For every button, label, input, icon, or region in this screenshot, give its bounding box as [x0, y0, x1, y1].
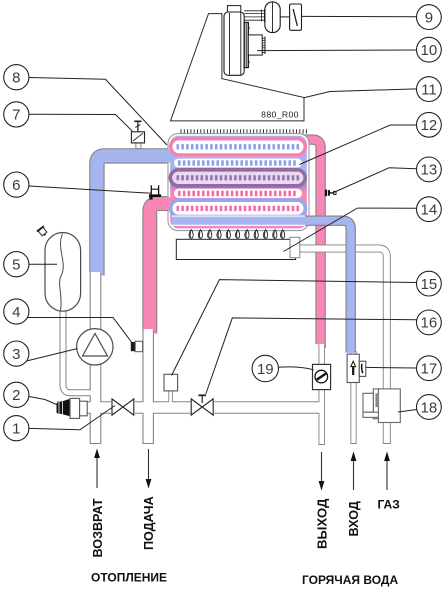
flow arrow supply (down) [148, 449, 150, 480]
svg-text:ВОЗВРАТ: ВОЗВРАТ [91, 498, 105, 557]
coil row 2 (blue fins strip) [174, 159, 302, 168]
dhw outlet lower run [319, 345, 325, 445]
fan top cap [227, 6, 240, 13]
svg-text:15: 15 [421, 276, 438, 293]
leader line 12 [300, 125, 417, 165]
callout circle 17 [417, 356, 442, 381]
svg-text:13: 13 [421, 162, 438, 179]
flue hood [171, 14, 305, 121]
white pipework: bores [58, 249, 387, 445]
svg-text:2: 2 [12, 387, 20, 404]
burner flames [189, 230, 285, 239]
drain fitting (item 2) [57, 398, 88, 418]
pressure relief valve (item 4) [131, 341, 143, 351]
svg-text:17: 17 [421, 361, 438, 378]
dhw flow switch (item 17) [347, 354, 366, 382]
gas pipe fitting at burner [290, 237, 300, 257]
arrowhead dhw outlet [319, 481, 325, 491]
heating return pipe (blue) [97, 156, 171, 276]
flow arrow gas (up) [386, 460, 388, 490]
leader line 14 [284, 208, 417, 251]
dhw inlet lower run [350, 351, 356, 444]
burner (item 14) [176, 239, 295, 259]
gas pipe [296, 249, 387, 445]
svg-text:10: 10 [421, 42, 438, 59]
callout circle 8 [4, 65, 29, 90]
leader line 9 [302, 15, 417, 17]
leader line 13 [333, 168, 417, 193]
svg-text:9: 9 [425, 9, 433, 26]
leader line 7 [29, 114, 133, 131]
svg-text:880_R00: 880_R00 [261, 110, 299, 120]
svg-text:19: 19 [257, 361, 274, 378]
callout circle 9 [417, 5, 442, 30]
svg-text:12: 12 [421, 117, 438, 134]
filling valve (item 16) [191, 394, 215, 415]
heating supply pipe (pink) [150, 204, 171, 334]
leader line 1 [29, 406, 115, 430]
coil row 3 (purple ring, purple fins) [169, 168, 307, 187]
callout circle 19 [252, 355, 278, 381]
svg-text:ПОДАЧА: ПОДАЧА [142, 496, 156, 550]
pressure plate (item 9) [290, 4, 302, 30]
arrowhead dhw inlet [351, 452, 357, 462]
fan motor U10 [248, 35, 262, 55]
pump (item 3) [77, 329, 113, 365]
leader line 10 [257, 49, 416, 52]
arrowhead return [94, 449, 100, 459]
leader line 11 [304, 89, 416, 98]
vessel charge valve [37, 226, 49, 238]
leader line 18 [398, 410, 417, 413]
leader line 3 [27, 349, 78, 362]
svg-text:ГОРЯЧАЯ ВОДА: ГОРЯЧАЯ ВОДА [302, 573, 398, 587]
supply pipe lower run [142, 330, 154, 444]
leader line 8 [29, 78, 167, 146]
svg-text:14: 14 [421, 202, 438, 219]
fan housing [224, 12, 244, 75]
coil row 4 (pink fins strip) [174, 189, 302, 198]
callout circle 12 [417, 112, 442, 137]
svg-text:8: 8 [12, 70, 20, 87]
fan assembly [224, 2, 302, 75]
leader line 2 [29, 397, 57, 405]
expansion vessel (item 5) [37, 226, 81, 311]
leader line 5 [29, 263, 57, 265]
air vent (item 7) [131, 121, 144, 148]
dhw inlet pipe (blue) through shell bottom [172, 215, 309, 225]
callout circle 2 [4, 382, 29, 407]
diagonal colour cuts [89, 273, 105, 285]
shaft [280, 16, 289, 18]
venturi tubes [244, 9, 265, 22]
callout circle 10 [417, 37, 442, 62]
leader line 15 [172, 280, 417, 376]
callout circle 7 [4, 102, 29, 127]
white pipework: outlines [57, 249, 387, 446]
svg-text:ОТОПЛЕНИЕ: ОТОПЛЕНИЕ [91, 571, 167, 585]
NTC sensor (item 13) [325, 190, 336, 197]
svg-text:1: 1 [12, 421, 20, 438]
callout circle 1 [4, 416, 29, 441]
arrowhead supply [146, 479, 152, 489]
callout circle 4 [4, 299, 29, 324]
svg-text:3: 3 [12, 346, 20, 363]
svg-text:16: 16 [421, 315, 438, 332]
svg-text:18: 18 [421, 399, 438, 416]
callout circle 11 [417, 77, 442, 102]
leader line 19 [278, 367, 313, 370]
svg-text:6: 6 [12, 177, 20, 194]
coil row 1 (pink ring, blue fins) [169, 137, 307, 157]
svg-text:ВЫХОД: ВЫХОД [314, 498, 329, 549]
coil row 5 (blue ring, pink fins) [169, 199, 307, 219]
flow arrow dhw outlet (down) [321, 452, 323, 482]
callout circle 18 [417, 395, 442, 420]
shut-off valve (item 1) [111, 399, 135, 415]
leader line 17 [366, 366, 417, 369]
fan mounting plate [244, 23, 248, 68]
return pipe lower run [90, 273, 102, 444]
callout circle 15 [417, 271, 442, 296]
dhw flow restrictor (near 19) [313, 364, 331, 389]
flow arrow dhw inlet (up) [353, 460, 355, 490]
callout circle 16 [417, 310, 442, 335]
svg-text:4: 4 [12, 304, 20, 321]
callout circle 3 [4, 341, 29, 366]
pressure switch (item 15) [164, 374, 178, 391]
flow arrow return (up) [96, 457, 98, 488]
fins on top [181, 129, 306, 133]
svg-text:7: 7 [12, 107, 20, 124]
callout circle 6 [4, 172, 29, 197]
callout circle 14 [417, 197, 442, 222]
heat exchanger (item 12) [152, 129, 351, 353]
leader line 16 [206, 318, 417, 394]
dhw outlet pipe (pink, right) [303, 140, 321, 348]
callout circle 13 [417, 157, 442, 182]
gas valve (item 18) [363, 389, 400, 423]
supply sensor (item 6) [149, 185, 161, 199]
svg-text:ГАЗ: ГАЗ [378, 498, 400, 512]
callout circle 5 [4, 252, 29, 277]
bottom horizontal run [57, 401, 322, 414]
leader line 4 [28, 318, 132, 343]
pipe stubs over shell edge [152, 149, 171, 162]
shell [168, 134, 309, 231]
svg-text:11: 11 [421, 81, 437, 98]
expansion vessel pipe [63, 305, 91, 393]
venturi wheel [265, 2, 280, 33]
pressure switch stem [168, 390, 173, 403]
svg-text:ВХОД: ВХОД [347, 501, 361, 536]
leader line 6 [29, 186, 152, 193]
arrowhead gas [384, 452, 390, 462]
svg-text:5: 5 [12, 257, 20, 274]
